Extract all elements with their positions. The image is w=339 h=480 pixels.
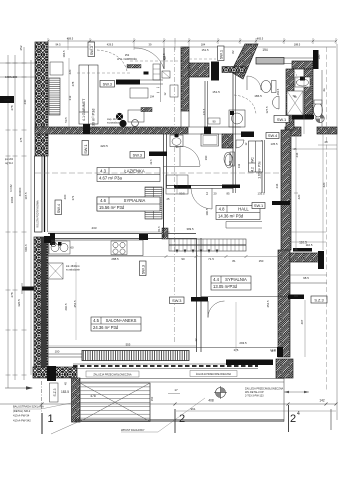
axis 1 line + label — [41, 381, 43, 413]
svg-text:90: 90 — [181, 257, 185, 261]
svg-text:240: 240 — [23, 99, 27, 104]
svg-text:SW.1: SW.1 — [254, 203, 263, 208]
bathroom 4.3: door arc — [180, 146, 200, 166]
svg-text:(DETAL) NR-2: (DETAL) NR-2 — [13, 409, 31, 413]
riser box — [162, 71, 170, 78]
svg-text:452.5: 452.5 — [266, 300, 270, 307]
svg-text:170.5: 170.5 — [202, 108, 206, 115]
neighbour bathroom: shower with X — [287, 91, 303, 115]
svg-text:459.5: 459.5 — [67, 37, 74, 41]
svg-text:1.63 m² P3e: 1.63 m² P3e — [258, 161, 262, 179]
wall salon/bedroom44 vertical — [196, 238, 198, 352]
svg-text:313: 313 — [68, 95, 72, 100]
svg-text:w zabudowie: w zabudowie — [66, 269, 80, 272]
gabinet shelf column — [153, 64, 160, 80]
svg-text:ŻALUZJA PRZECIWSŁONECZNA: ŻALUZJA PRZECIWSŁONECZNA — [196, 373, 232, 376]
room label 4.6 redraw on top — [97, 197, 160, 211]
svg-text:150: 150 — [259, 259, 264, 263]
gabinet chair — [170, 85, 178, 97]
room label 4.4 SYPIALNIA — [211, 276, 251, 290]
SW.3 box salon/bedroom wall — [170, 297, 185, 304]
svg-text:150: 150 — [150, 396, 154, 401]
svg-text:260: 260 — [63, 194, 67, 199]
svg-text:98.5: 98.5 — [303, 276, 309, 280]
black jamb top right — [313, 50, 319, 69]
svg-text:236: 236 — [295, 152, 299, 157]
room label 4.2 WC (rotated) — [249, 141, 263, 172]
balcony deck with planks and X — [80, 383, 150, 422]
svg-text:252: 252 — [125, 53, 130, 57]
svg-text:142: 142 — [319, 399, 325, 403]
svg-text:24.36 m² P3d: 24.36 m² P3d — [93, 325, 119, 330]
svg-text:ROLETA PODTYNKOWA: ROLETA PODTYNKOWA — [37, 200, 40, 228]
svg-text:183.5: 183.5 — [61, 390, 69, 394]
wall band right of beam (hatched) — [292, 61, 313, 69]
svg-text:9.30 m² P3d: 9.30 m² P3d — [92, 109, 96, 130]
gabinet desk rect — [130, 88, 148, 98]
svg-text:SYPIALNIA: SYPIALNIA — [225, 277, 247, 282]
right margin tick lines — [291, 148, 337, 150]
svg-text:12.5: 12.5 — [271, 350, 276, 353]
svg-text:167.5: 167.5 — [24, 192, 28, 199]
svg-text:WYŁ. NADPROŻA: WYŁ. NADPROŻA — [117, 58, 137, 61]
top wall stub horizontal (hatched) — [189, 63, 209, 77]
gabinet top door leaf + arc — [163, 48, 165, 69]
svg-text:cw: cw — [157, 87, 160, 89]
dim chain salon top — [45, 256, 290, 258]
svg-text:94.5: 94.5 — [55, 43, 61, 47]
WC: corner basin — [236, 140, 244, 148]
svg-text:GABINET: GABINET — [82, 98, 86, 115]
svg-text:100: 100 — [55, 350, 60, 354]
svg-text:SW.3: SW.3 — [133, 152, 142, 157]
svg-text:71.5: 71.5 — [208, 257, 214, 261]
svg-text:252: 252 — [19, 45, 23, 50]
svg-text:293.5: 293.5 — [239, 341, 247, 345]
gabinet inner dim line — [68, 58, 70, 127]
wall stub to sheet edge (hatched) — [317, 127, 337, 134]
upper bathroom small sink — [273, 96, 280, 109]
svg-text:135.5: 135.5 — [271, 142, 278, 146]
svg-text:SW.3: SW.3 — [172, 298, 181, 303]
gabinet wardrobe top — [50, 62, 63, 75]
svg-text:S.Z.3: S.Z.3 — [53, 388, 57, 396]
svg-text:320.5: 320.5 — [17, 299, 21, 307]
svg-text:276: 276 — [234, 348, 239, 352]
black bar main wall right — [241, 132, 254, 138]
svg-text:407: 407 — [300, 319, 304, 324]
svg-text:SYPIALNIA: SYPIALNIA — [124, 198, 146, 203]
corner wall block right (hatched) — [285, 127, 301, 136]
svg-text:20: 20 — [213, 192, 217, 196]
neighbour bathroom: toilet — [314, 103, 323, 117]
svg-text:151.5: 151.5 — [212, 90, 220, 94]
svg-text:184.5: 184.5 — [62, 50, 66, 57]
bedroom44 top wall with openings — [201, 296, 290, 298]
salon bottom wall lines — [48, 347, 278, 349]
right exterior wall middle (hatched) — [281, 130, 291, 250]
svg-text:190: 190 — [204, 155, 208, 160]
wall WC right vertical — [261, 140, 263, 193]
SW.1 box upper right — [274, 116, 289, 123]
corridor wall below jamb — [204, 81, 206, 130]
svg-text:SW.1: SW.1 — [83, 145, 88, 154]
svg-text:961: 961 — [190, 407, 195, 411]
SW.1 box hall — [252, 203, 265, 209]
svg-text:4.4: 4.4 — [213, 277, 219, 282]
dashed line gabinet — [77, 72, 130, 74]
svg-text:ŻALUZJA PRZECIWSŁONECZNA: ŻALUZJA PRZECIWSŁONECZNA — [245, 388, 284, 391]
SW.4 box left window vertical — [55, 200, 62, 215]
svg-text:408: 408 — [208, 399, 214, 403]
svg-text:60: 60 — [70, 246, 74, 250]
SW.3 box salon vertical — [140, 261, 147, 276]
bathroom 4.3: toilet — [224, 153, 232, 166]
bathroom 4.3: washbasin — [170, 135, 183, 147]
svg-text:288.5: 288.5 — [111, 257, 119, 261]
svg-text:2-T03-3-PW-123: 2-T03-3-PW-123 — [245, 395, 264, 398]
dim slash ticks bottom line — [41, 403, 44, 406]
neighbour bathroom: washbasin — [295, 77, 310, 87]
grid bubble on main wall — [132, 120, 139, 127]
leader diagonal bottom — [51, 421, 80, 434]
svg-text:429.5: 429.5 — [107, 43, 114, 47]
svg-text:4.6: 4.6 — [100, 198, 106, 203]
kitchen sink — [49, 241, 70, 254]
wall bathroom/bedroom vertical double — [163, 134, 165, 232]
svg-text:260.5: 260.5 — [64, 303, 68, 310]
bathroom lower-left cabinet — [166, 175, 188, 194]
svg-text:465.5: 465.5 — [257, 37, 264, 41]
svg-text:175: 175 — [19, 137, 23, 142]
svg-text:140/6x200: 140/6x200 — [5, 75, 18, 79]
svg-text:2: 2 — [290, 413, 296, 425]
kitchen corner black marks — [44, 236, 51, 243]
neighbour bathroom right line — [321, 70, 323, 127]
svg-text:45: 45 — [64, 382, 68, 386]
right dim ticks — [294, 133, 298, 135]
svg-text:4.8: 4.8 — [219, 207, 225, 212]
svg-text:60/200: 60/200 — [18, 187, 22, 196]
top boundary line — [48, 46, 336, 48]
WC block wall (hatched) — [222, 134, 233, 148]
SW.3 box bathroom wall — [130, 152, 145, 159]
black jamb bottom-left — [47, 366, 56, 381]
room label 4.3 LAZIENKA — [97, 168, 160, 182]
svg-text:142: 142 — [237, 163, 241, 168]
gabinet partition line — [160, 62, 162, 102]
svg-text:4.1: 4.1 — [82, 116, 86, 121]
kitchen fridge with X — [48, 263, 63, 279]
svg-text:278: 278 — [71, 81, 75, 86]
wall bedroom bottom horizontal — [48, 233, 196, 235]
left exterior wall upper (hatched) — [35, 42, 48, 156]
bedroom 4.6 wardrobe striped — [145, 187, 162, 219]
kitchen counter line — [48, 240, 143, 256]
svg-text:poz.204: poz.204 — [5, 159, 14, 161]
svg-text:190.5: 190.5 — [205, 208, 209, 215]
svg-text:S.Z.3: S.Z.3 — [314, 297, 323, 302]
svg-text:WC: WC — [251, 157, 255, 163]
bottom-right corner block (hatched) — [276, 359, 293, 378]
dashed door swing upper right — [234, 95, 256, 114]
svg-text:w posadzce: w posadzce — [107, 122, 120, 125]
room label 4.8 HALL — [216, 206, 260, 220]
left wall window (roleta box) — [35, 156, 43, 232]
svg-text:127.5: 127.5 — [265, 106, 269, 113]
svg-text:278: 278 — [10, 105, 14, 110]
svg-text:HALL: HALL — [238, 207, 249, 212]
svg-text:SW.1: SW.1 — [218, 50, 223, 59]
SW.3 box top-left vertical — [88, 42, 95, 57]
svg-text:413-A-PW-34: 413-A-PW-34 — [13, 414, 30, 418]
svg-text:S.W9: S.W9 — [4, 99, 11, 102]
upper right dashed door swing — [294, 71, 297, 86]
svg-text:WPUST DACHOWY: WPUST DACHOWY — [121, 428, 145, 432]
room label 4.1 GABINET (rotated) — [79, 65, 98, 124]
svg-text:4: 4 — [297, 411, 300, 417]
svg-text:110.5: 110.5 — [306, 243, 313, 247]
hall/bedroom44 horizontal line — [290, 282, 327, 284]
window band bottom (mullions) — [82, 351, 189, 361]
svg-text:14.36 m² P3d: 14.36 m² P3d — [218, 214, 244, 219]
svg-text:4.5: 4.5 — [93, 318, 99, 323]
svg-text:420: 420 — [322, 182, 326, 187]
black level marker left — [22, 287, 40, 291]
right exterior wall lower (hatched) — [278, 250, 290, 357]
svg-text:70: 70 — [292, 94, 296, 98]
left dimension chains — [7, 55, 9, 388]
svg-text:SW.4: SW.4 — [56, 203, 61, 213]
bedroom44 inner dim line — [235, 302, 237, 352]
room label 4.5 SALON+ANEKS — [91, 317, 141, 331]
black marker bottom right wall — [277, 347, 283, 357]
black lintel over loggia door — [293, 248, 312, 252]
svg-text:zw: zw — [157, 92, 160, 94]
svg-text:SW.4: SW.4 — [268, 133, 278, 138]
svg-text:SW.3: SW.3 — [103, 81, 112, 86]
SW.1 box left below main wall (vertical) — [82, 141, 89, 156]
svg-text:SW.3: SW.3 — [140, 265, 145, 274]
main horizontal wall (hatched band) — [35, 127, 188, 134]
window inner glass line — [44, 156, 46, 232]
svg-text:ŁAZIENKA: ŁAZIENKA — [124, 169, 144, 174]
left edge tiny annotation clusters — [0, 96, 14, 103]
svg-text:420: 420 — [297, 194, 301, 199]
svg-text:1004: 1004 — [10, 196, 14, 203]
zaluzja label boxes on wall — [86, 371, 139, 377]
door jamb black in main wall — [83, 120, 90, 134]
svg-text:278: 278 — [10, 292, 14, 297]
left arrow line — [5, 387, 32, 389]
bedroom 4.4 door leaf and arc — [207, 301, 209, 318]
hall closet lines — [226, 221, 262, 223]
threshold dashed black — [73, 363, 258, 365]
svg-text:194: 194 — [150, 96, 155, 99]
axis 2-4 label right — [288, 405, 290, 432]
svg-text:188.5: 188.5 — [294, 43, 301, 47]
svg-text:478: 478 — [90, 394, 96, 398]
WC: toilet — [225, 154, 233, 168]
right wall stub at loggia (hatched) — [290, 253, 319, 262]
right exterior wall top (hatched) — [286, 69, 294, 130]
washer upper-right room — [229, 110, 245, 127]
svg-text:13.05 m²P3d: 13.05 m²P3d — [213, 284, 238, 289]
svg-text:90.5: 90.5 — [179, 192, 185, 196]
drain circle — [216, 388, 226, 398]
kitchen stove 4 burners — [111, 241, 127, 255]
axis 2 line + label — [174, 47, 176, 343]
svg-text:173.5: 173.5 — [162, 53, 166, 60]
door tag box — [208, 118, 220, 124]
svg-text:151.5: 151.5 — [202, 48, 209, 52]
svg-text:15.56 m² P3d: 15.56 m² P3d — [99, 205, 125, 210]
svg-text:WG DETALU KP: WG DETALU KP — [245, 391, 264, 394]
neighbour bath wall (hatched) — [304, 69, 313, 115]
bottom-left corner wall (hatched) — [33, 367, 77, 378]
deck bottom emphasize — [74, 419, 284, 421]
sheet right border — [336, 44, 338, 420]
svg-text:236: 236 — [275, 183, 279, 188]
svg-text:452.5: 452.5 — [73, 300, 77, 307]
svg-text:413-A-PW-342: 413-A-PW-342 — [13, 418, 31, 422]
SW box top middle vertical — [218, 46, 225, 61]
svg-text:184: 184 — [201, 43, 206, 47]
beam over opening top-right — [256, 58, 284, 65]
svg-text:194: 194 — [262, 48, 268, 52]
svg-text:17: 17 — [174, 388, 178, 392]
svg-text:4.67 m² P3a: 4.67 m² P3a — [99, 176, 122, 181]
svg-text:ŻALUZJA PRZECIWSŁONECZNA: ŻALUZJA PRZECIWSŁONECZNA — [93, 373, 132, 376]
svg-text:wg W-2: wg W-2 — [5, 163, 13, 165]
wall WC left vertical — [232, 70, 234, 193]
svg-text:90/1.5: 90/1.5 — [24, 244, 28, 252]
door arc top-right room — [247, 76, 261, 90]
svg-text:1: 1 — [48, 413, 54, 425]
svg-text:180: 180 — [317, 54, 321, 59]
SZ3 label vertical balcony — [50, 383, 59, 402]
black wall below bedroom44 — [226, 360, 273, 366]
balcony left rail (hatched) — [72, 378, 81, 422]
balcony outline — [80, 378, 284, 380]
svg-text:53.5: 53.5 — [64, 117, 68, 123]
interior wall top-left vertical (hatched) — [181, 47, 189, 111]
svg-text:433: 433 — [91, 226, 96, 230]
svg-text:h=152: h=152 — [9, 184, 13, 192]
svg-text:220: 220 — [68, 69, 72, 74]
black jamb top — [211, 62, 219, 81]
lintel checkered top passage — [222, 67, 246, 73]
svg-text:371: 371 — [71, 195, 75, 200]
bathroom 4.3: washer — [201, 134, 219, 146]
svg-text:SW.3: SW.3 — [89, 46, 94, 55]
svg-text:SW.1: SW.1 — [277, 117, 286, 122]
svg-text:399.5: 399.5 — [187, 227, 194, 231]
bath door arc to hall — [191, 188, 212, 209]
bottom dim lines — [0, 403, 336, 405]
svg-text:61.5: 61.5 — [157, 226, 161, 232]
svg-text:420.5: 420.5 — [100, 144, 108, 148]
upper bathroom toilet — [261, 81, 271, 93]
svg-text:162.5: 162.5 — [276, 88, 280, 95]
svg-text:BALUSTRADA SZKLANA: BALUSTRADA SZKLANA — [13, 405, 44, 409]
svg-text:22.5: 22.5 — [149, 159, 153, 165]
svg-text:4.3: 4.3 — [100, 169, 106, 174]
svg-text:90: 90 — [212, 120, 216, 124]
SW.3 box gabinet — [100, 81, 115, 88]
technical shaft cluster — [116, 113, 123, 120]
upper small ticks row2 — [67, 44, 69, 50]
svg-text:28: 28 — [324, 140, 328, 144]
gabinet door arc (dashed) — [97, 50, 127, 71]
diagonal wall top (hatched) — [231, 44, 258, 79]
svg-text:85: 85 — [226, 192, 230, 196]
ticks on top line — [47, 40, 50, 43]
svg-text:4.2: 4.2 — [251, 167, 255, 172]
hall wardrobe hangers — [169, 239, 246, 251]
dim slash ticks salon line — [44, 255, 47, 258]
S.Z.3 box right wall — [311, 296, 327, 303]
svg-text:90: 90 — [175, 145, 179, 149]
upper-middle room dashes — [189, 58, 216, 60]
left exterior wall lower (hatched) — [34, 237, 48, 367]
svg-text:82: 82 — [231, 50, 235, 54]
top dimension chain — [48, 40, 336, 42]
svg-text:81: 81 — [232, 259, 236, 263]
svg-text:140: 140 — [228, 160, 232, 165]
room label 4.6 SYPIALNIA — [97, 197, 160, 211]
wall junction hatch block — [162, 228, 168, 239]
svg-text:186.5: 186.5 — [254, 94, 262, 98]
gabinet radiator — [49, 78, 60, 115]
svg-text:135.5: 135.5 — [258, 192, 265, 196]
svg-text:SALON+ANEKS: SALON+ANEKS — [106, 318, 137, 323]
SW.4 box near main wall right — [266, 133, 279, 139]
bathroom bottom wall — [166, 185, 233, 187]
dashed service line across — [35, 172, 292, 174]
